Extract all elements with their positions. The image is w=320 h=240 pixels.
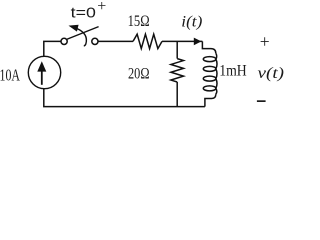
wire 20-ohm bottom lead xyxy=(176,82,178,107)
svg-text:+: + xyxy=(97,0,106,15)
current source I1 arrow xyxy=(37,61,46,85)
svg-text:v(t): v(t) xyxy=(258,65,285,82)
inductor L1 loop 1 xyxy=(203,57,216,62)
inductor L1 loop 2 xyxy=(203,66,216,71)
switch blade xyxy=(67,27,99,40)
inductor L1 loop 3 xyxy=(203,76,216,81)
switch contact left xyxy=(61,38,67,44)
wire 15-ohm to inductor corner xyxy=(162,40,202,42)
wire bottom step from inductor xyxy=(205,94,216,106)
resistor R2 20ohm xyxy=(171,59,184,82)
svg-text:i(t): i(t) xyxy=(181,13,202,30)
svg-text:1mH: 1mH xyxy=(219,63,247,80)
resistor R1 15ohm xyxy=(133,34,162,48)
current arrow i(t) arrowhead xyxy=(194,38,202,46)
svg-text:+: + xyxy=(260,31,270,51)
label minus polarity xyxy=(257,100,266,102)
switch motion arc xyxy=(77,29,86,46)
wire top-left (left vertical + top wire to switch) xyxy=(44,41,61,56)
svg-text:t=0: t=0 xyxy=(71,5,96,22)
svg-text:15Ω: 15Ω xyxy=(128,13,150,30)
switch motion arrowhead xyxy=(69,25,79,32)
wire switch to 15-ohm resistor xyxy=(98,40,133,42)
wire 20-ohm top lead xyxy=(176,41,178,58)
current source I1 circle xyxy=(28,56,60,88)
switch contact right xyxy=(92,38,98,44)
svg-text:10A: 10A xyxy=(0,66,20,85)
inductor L1 spine xyxy=(216,53,217,94)
wire top step into inductor xyxy=(202,41,215,53)
wire bottom xyxy=(44,89,205,107)
inductor L1 loop 4 xyxy=(203,86,216,91)
svg-text:20Ω: 20Ω xyxy=(128,66,150,83)
